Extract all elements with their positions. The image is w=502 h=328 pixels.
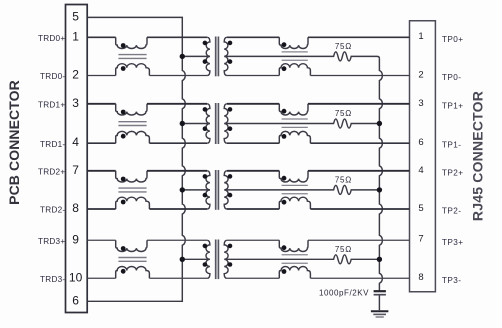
svg-text:TRD3+: TRD3+: [38, 237, 65, 246]
svg-text:8: 8: [72, 201, 79, 215]
svg-text:75Ω: 75Ω: [335, 42, 352, 51]
svg-text:TRD0-: TRD0-: [40, 72, 65, 81]
svg-text:TRD1-: TRD1-: [40, 140, 65, 149]
svg-text:TP1+: TP1+: [442, 101, 464, 110]
svg-text:6: 6: [72, 293, 79, 307]
svg-text:75Ω: 75Ω: [335, 245, 352, 254]
svg-text:2: 2: [72, 68, 79, 82]
svg-text:TRD3-: TRD3-: [40, 275, 65, 284]
svg-text:3: 3: [72, 96, 79, 110]
svg-text:75Ω: 75Ω: [335, 175, 352, 184]
svg-text:TRD1+: TRD1+: [38, 100, 65, 109]
svg-text:RJ45 CONNECTOR: RJ45 CONNECTOR: [470, 91, 486, 221]
svg-text:4: 4: [418, 165, 423, 176]
svg-text:6: 6: [418, 137, 423, 148]
svg-text:PCB CONNECTOR: PCB CONNECTOR: [6, 80, 22, 205]
svg-text:TRD2+: TRD2+: [38, 167, 65, 176]
svg-text:TP2-: TP2-: [442, 206, 462, 215]
svg-text:TP1-: TP1-: [442, 141, 462, 150]
svg-text:5: 5: [418, 203, 423, 214]
svg-text:TP3-: TP3-: [442, 276, 462, 285]
svg-text:75Ω: 75Ω: [335, 109, 352, 118]
svg-text:TRD0+: TRD0+: [38, 34, 65, 43]
svg-text:1000pF/2KV: 1000pF/2KV: [319, 288, 369, 297]
svg-text:3: 3: [418, 98, 423, 109]
svg-text:4: 4: [72, 135, 79, 149]
svg-text:10: 10: [69, 270, 83, 284]
svg-text:1: 1: [418, 31, 423, 42]
svg-text:5: 5: [72, 9, 79, 23]
svg-text:TP0-: TP0-: [442, 73, 462, 82]
svg-text:1: 1: [72, 29, 79, 43]
svg-text:2: 2: [418, 69, 423, 80]
svg-text:8: 8: [418, 272, 423, 283]
svg-text:TRD2-: TRD2-: [40, 206, 65, 215]
svg-text:TP2+: TP2+: [442, 168, 464, 177]
svg-text:7: 7: [418, 234, 423, 245]
svg-text:9: 9: [72, 232, 79, 246]
svg-text:TP0+: TP0+: [442, 35, 464, 44]
svg-text:7: 7: [72, 163, 79, 177]
svg-text:TP3+: TP3+: [442, 238, 464, 247]
